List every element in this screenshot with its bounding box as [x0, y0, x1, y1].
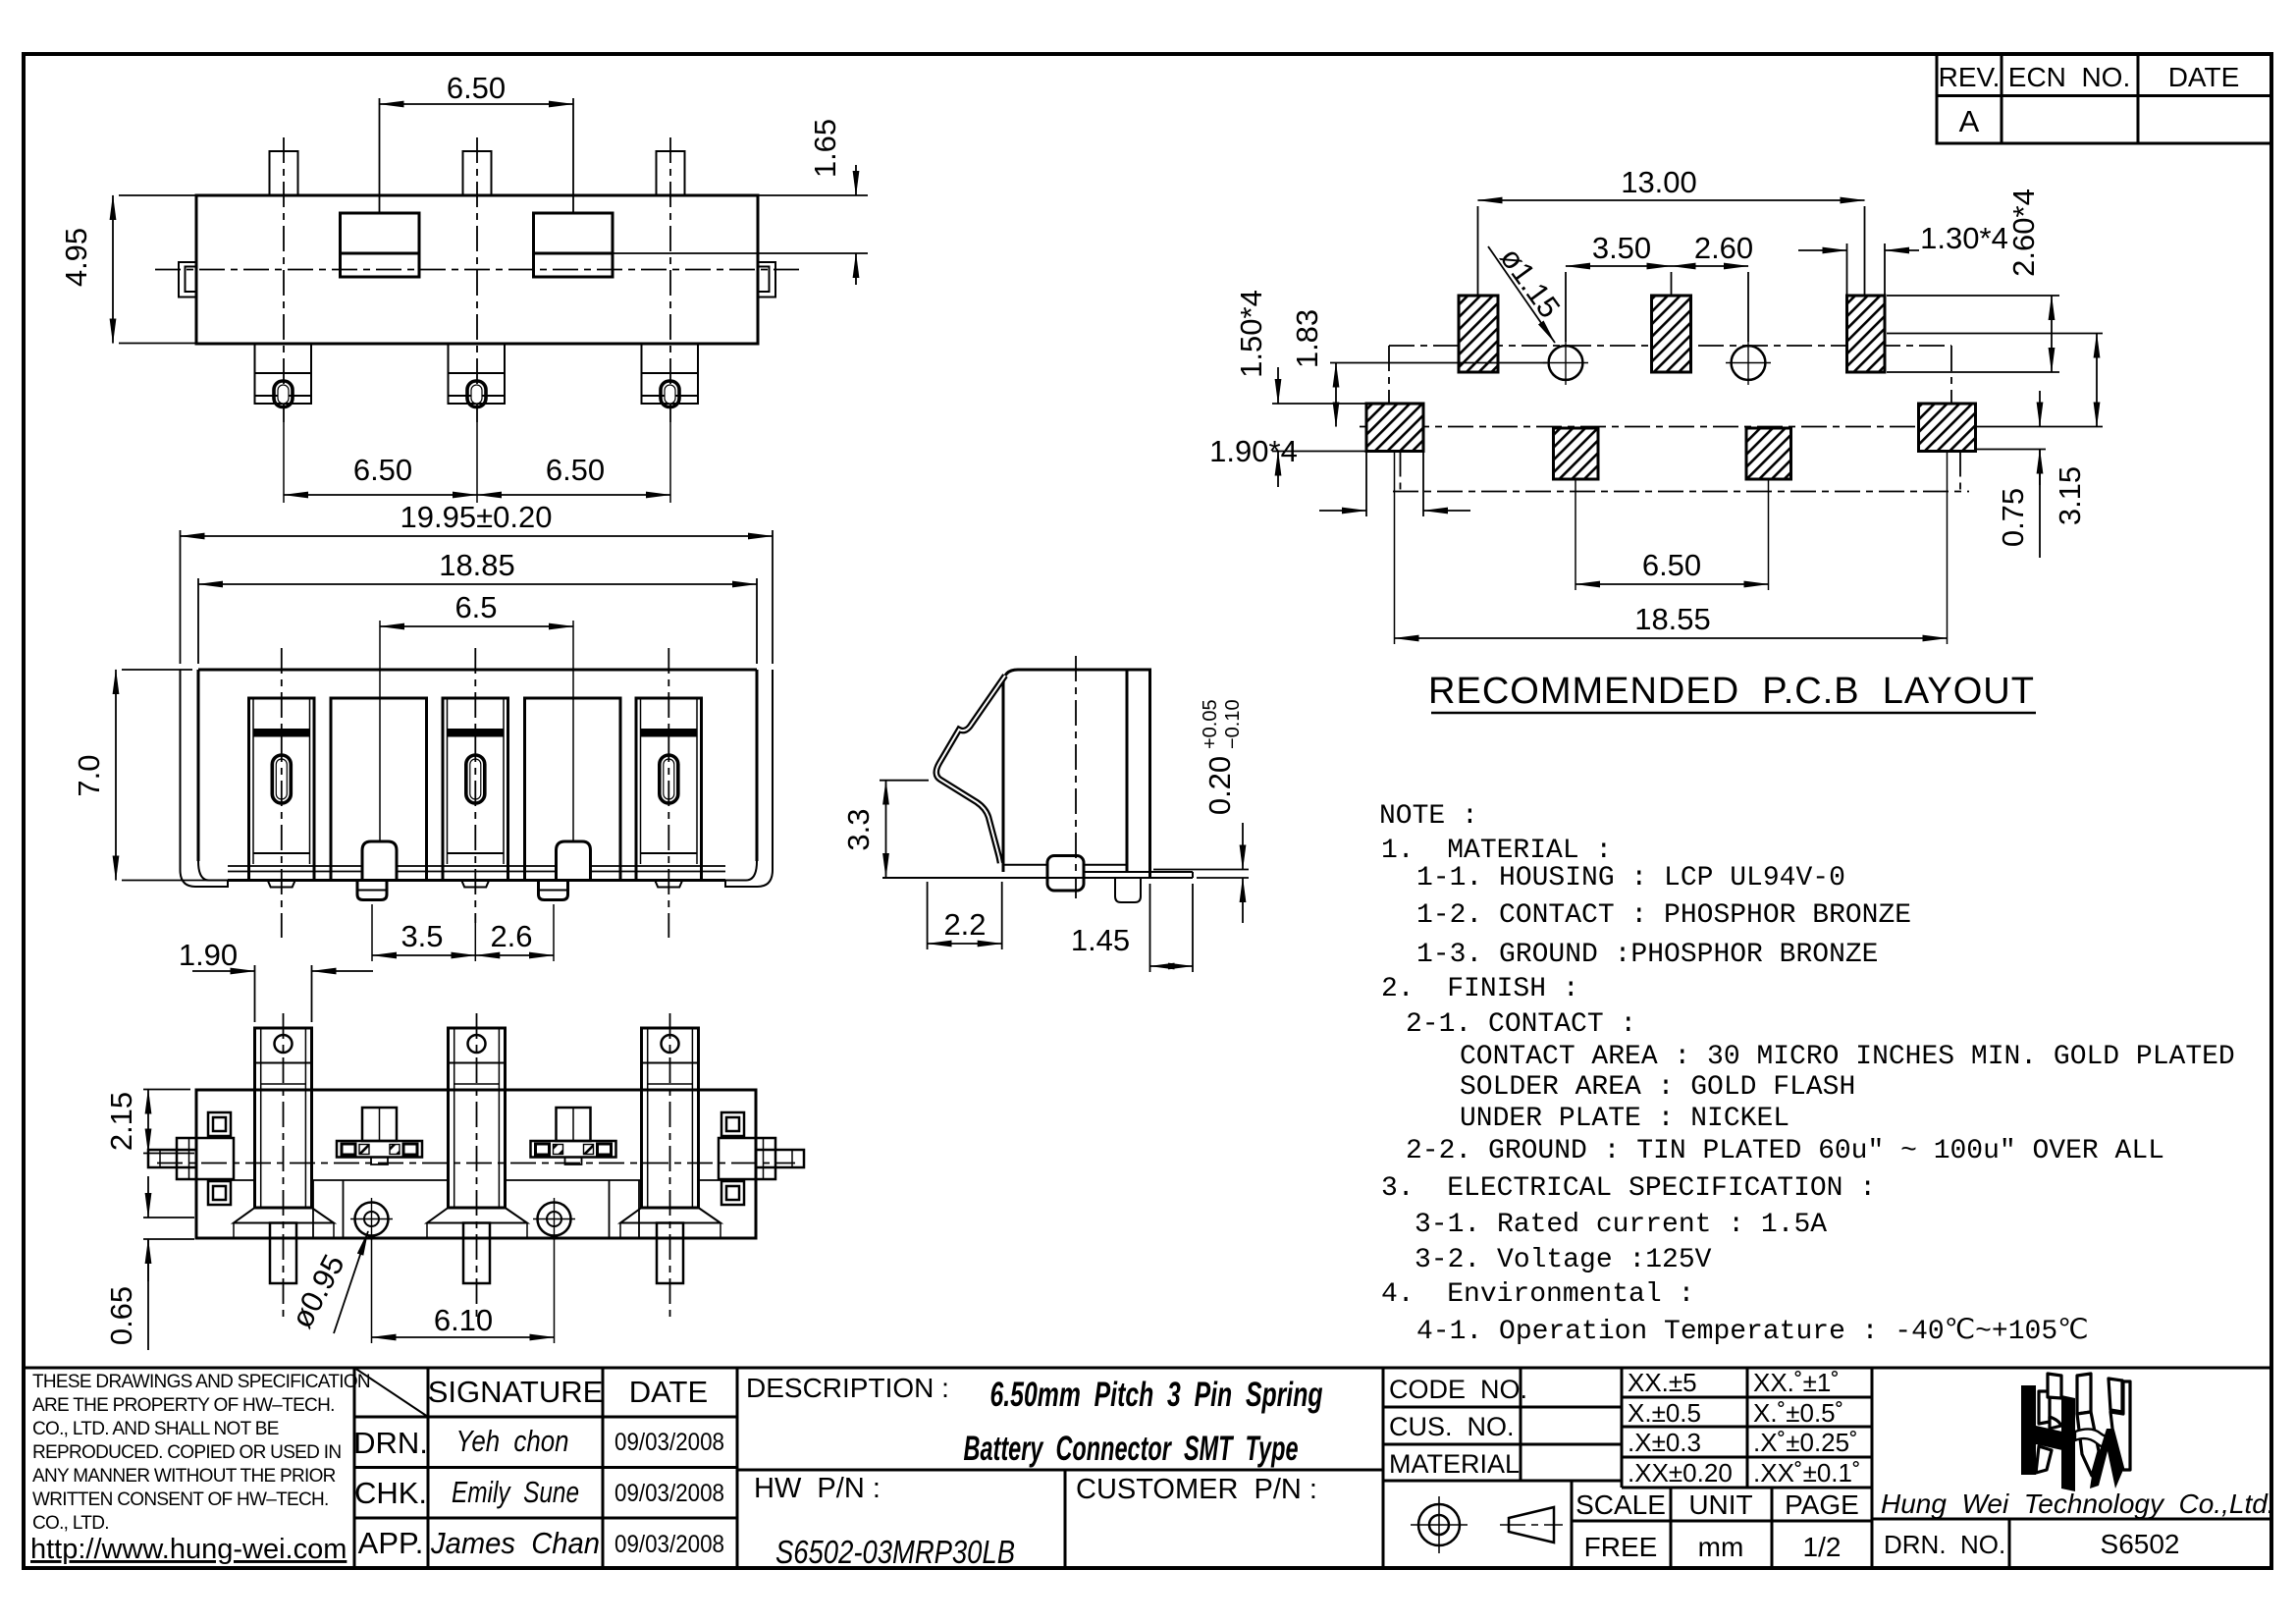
front view: contact cell 1: [249, 698, 315, 888]
svg-text:UNDER PLATE : NICKEL: UNDER PLATE : NICKEL: [1460, 1104, 1789, 1134]
dim 1.50*4: arrows outside: [1277, 367, 1279, 404]
dim 6.50 bottom left: dimension line: [284, 494, 477, 496]
dim 3.3: dimension line: [885, 781, 887, 878]
front view: body top line: [198, 669, 757, 672]
label Ø1.15: leader: [1488, 246, 1555, 343]
dim 2.15: extension lines: [143, 1089, 190, 1091]
svg-text:Yeh chon: Yeh chon: [456, 1424, 569, 1458]
svg-text:3.50: 3.50: [1592, 231, 1651, 265]
projection symbol cone: [1500, 1507, 1563, 1543]
pcb layout: pad T1: [1459, 296, 1498, 372]
bottom view: step notch verticals: [313, 1180, 639, 1238]
logo H right stem outline upper: [2039, 1391, 2050, 1424]
svg-text:2. FINISH :: 2. FINISH :: [1381, 974, 1579, 1004]
svg-text:19.95±0.20: 19.95±0.20: [400, 500, 553, 534]
svg-text:2.60: 2.60: [1694, 231, 1753, 265]
svg-text:Emily Sune: Emily Sune: [452, 1475, 579, 1509]
dim 0.20 +0.05 -0.10: text: [1200, 699, 1244, 815]
svg-text:1.90*4: 1.90*4: [1209, 434, 1298, 468]
projection symbol circle: [1411, 1496, 1468, 1553]
dim 18.55: extension lines: [1394, 452, 1396, 645]
svg-text:1.45: 1.45: [1071, 923, 1130, 957]
svg-text:4. Environmental :: 4. Environmental :: [1381, 1279, 1694, 1310]
svg-text:4.95: 4.95: [59, 228, 93, 287]
top view: bottom lug pin 1: [255, 344, 312, 407]
svg-text:1-1. HOUSING : LCP UL94V-0: 1-1. HOUSING : LCP UL94V-0: [1416, 863, 1845, 893]
top view: right side ground tab: [758, 262, 775, 298]
svg-text:APP.: APP.: [358, 1526, 424, 1560]
svg-text:1-3. GROUND :PHOSPHOR BRONZE: 1-3. GROUND :PHOSPHOR BRONZE: [1416, 940, 1878, 970]
front view: contact cell 5: [636, 698, 702, 888]
pcb layout: pad B1: [1366, 404, 1423, 452]
top view: bottom lug pin 3: [642, 344, 699, 407]
side view: housing inner wall: [1126, 670, 1129, 872]
svg-text:HW P/N :: HW P/N :: [754, 1473, 881, 1504]
logo top small bar outline: [2048, 1374, 2061, 1398]
dim 13.00: dimension line: [1478, 199, 1865, 201]
svg-text:0.65: 0.65: [104, 1286, 138, 1345]
pcb layout: bottom center line: [1393, 491, 1969, 493]
svg-text:09/03/2008: 09/03/2008: [614, 1480, 724, 1507]
svg-text:2.15: 2.15: [104, 1092, 138, 1151]
dim 1.45: dimension line: [1150, 965, 1194, 967]
svg-text:6.5: 6.5: [454, 590, 497, 624]
dim 3.50: extension lines: [1565, 272, 1567, 342]
side view: smt lead top line: [1084, 871, 1193, 873]
dim 3.15: extension line bottom: [1976, 426, 2103, 428]
svg-text:WRITTEN CONSENT OF HW–TECH.: WRITTEN CONSENT OF HW–TECH.: [32, 1489, 329, 1510]
svg-text:.XX˚±0.1˚: .XX˚±0.1˚: [1753, 1458, 1861, 1488]
front view: contact cell 3: [443, 698, 508, 888]
front view: right ground wing hook inner: [725, 861, 757, 881]
bottom view: ground contact T 2: [531, 1108, 616, 1164]
pcb layout: hole circle 1: [1543, 341, 1588, 385]
svg-text:2-2. GROUND : TIN PLATED 60u″: 2-2. GROUND : TIN PLATED 60u″ ~ 100u″ OV…: [1406, 1136, 2164, 1166]
dim 6.50 top: extension lines: [379, 98, 381, 213]
front view: body left wall: [197, 670, 200, 861]
svg-text:1.65: 1.65: [808, 119, 842, 178]
company cell divider: [1872, 1519, 2271, 1568]
tolerance table lines: [1622, 1368, 1872, 1488]
svg-text:2-1. CONTACT :: 2-1. CONTACT :: [1406, 1009, 1636, 1040]
svg-text:ECN NO.: ECN NO.: [2008, 62, 2130, 92]
svg-text:3.5: 3.5: [400, 919, 443, 953]
bottom view: tower center lines: [283, 1013, 285, 1321]
bottom view: inner bottom step line: [228, 1179, 724, 1181]
dim 6.50 top: dimension line: [380, 103, 574, 105]
svg-text:CUSTOMER P/N :: CUSTOMER P/N :: [1076, 1474, 1317, 1505]
svg-text:S6502-03MRP30LB: S6502-03MRP30LB: [775, 1534, 1015, 1570]
dim 6.5: extension lines through cells: [379, 621, 381, 841]
dim 2.60: extension line: [1747, 272, 1749, 342]
bottom view: mount hole circle 2: [533, 1198, 575, 1240]
dim 7.0: extension lines: [122, 669, 192, 671]
svg-text:SCALE: SCALE: [1575, 1489, 1666, 1520]
side view: center line: [1075, 656, 1077, 898]
dim 19.95±0.20: extension lines: [180, 530, 182, 664]
dim 1.50*4: extension lines: [1272, 403, 1366, 405]
front view: cell2 ground upper tab: [362, 841, 397, 881]
svg-text:REV.: REV.: [1939, 62, 2001, 92]
svg-text:0.75: 0.75: [1996, 488, 2030, 547]
logo H right stem outline lower: [2036, 1446, 2052, 1473]
dim 18.85: dimension line: [198, 583, 757, 585]
top view: contact window 1: [341, 213, 420, 277]
svg-text:CO., LTD.: CO., LTD.: [32, 1513, 109, 1534]
pcb layout: center line stub under pad B4: [1959, 452, 1961, 492]
dim 2.60*4: dimension line: [2051, 296, 2053, 372]
svg-text:4-1. Operation Temperature : -: 4-1. Operation Temperature : -40℃~+105℃: [1416, 1317, 2089, 1347]
svg-text:CHK.: CHK.: [354, 1476, 427, 1510]
svg-text:13.00: 13.00: [1621, 165, 1697, 199]
company logo HW: [2021, 1374, 2130, 1491]
dim 2.6: extension line right: [553, 904, 555, 961]
bottom view: tower 2: [427, 1028, 527, 1283]
pcb layout: pad B4: [1919, 404, 1976, 452]
revision table frame: [1937, 54, 2271, 143]
dim 13.00: extension lines: [1477, 206, 1479, 296]
svg-text:1.83: 1.83: [1290, 309, 1324, 368]
svg-text:3.3: 3.3: [841, 808, 876, 850]
side view: smt lead end: [1192, 872, 1194, 878]
dim 3.50: dimension line: [1566, 265, 1672, 267]
svg-text:DESCRIPTION :: DESCRIPTION :: [746, 1373, 949, 1403]
side view: bottom tab: [1115, 878, 1141, 902]
svg-text:3-2. Voltage :125V: 3-2. Voltage :125V: [1415, 1245, 1712, 1275]
front view: contact center lines: [281, 648, 283, 938]
svg-text:6.50: 6.50: [447, 71, 506, 105]
dim 0.65: arrow and line: [147, 1239, 149, 1281]
front view: left ground wing hook outer: [181, 670, 229, 887]
pcb layout: pad B2 extension: [1575, 479, 1576, 590]
svg-text:3. ELECTRICAL SPECIFICATION :: 3. ELECTRICAL SPECIFICATION :: [1381, 1173, 1876, 1204]
svg-text:XX.˚±1˚: XX.˚±1˚: [1753, 1368, 1840, 1397]
top view: housing body outline: [196, 195, 758, 344]
front view: middle cell 2: [331, 698, 427, 881]
svg-text:NOTE :: NOTE :: [1379, 801, 1478, 832]
title block top line: [24, 1367, 2271, 1370]
svg-text:X.±0.5: X.±0.5: [1628, 1398, 1701, 1428]
front view: body right wall: [756, 670, 759, 861]
dim 1.90*4: arrows outside: [1319, 510, 1366, 512]
bottom view: body outline: [196, 1090, 756, 1238]
svg-text:3-1. Rated current : 1.5A: 3-1. Rated current : 1.5A: [1415, 1210, 1827, 1240]
dim 1.90*4: extension lines: [1365, 452, 1367, 517]
svg-text:1-2. CONTACT : PHOSPHOR BRONZE: 1-2. CONTACT : PHOSPHOR BRONZE: [1416, 900, 1911, 931]
chained arrow to step line: [147, 1176, 149, 1218]
dim 0.75: arrows outside: [2039, 391, 2041, 427]
front view: ground strip lines: [228, 865, 725, 867]
dim 2.60*4: extension lines: [1887, 295, 2059, 297]
front view: left ground wing hook inner: [198, 861, 228, 881]
svg-text:REPRODUCED. COPIED OR USED IN: REPRODUCED. COPIED OR USED IN: [32, 1442, 341, 1463]
code no table lines: [1383, 1368, 1622, 1481]
dim 6.50 bottom right: dimension line: [477, 494, 670, 496]
logo W right top bar outline: [2109, 1379, 2122, 1412]
dim 6.10: extension lines: [371, 1239, 373, 1343]
logo H crossbar solid: [2036, 1426, 2062, 1450]
svg-text:FREE: FREE: [1584, 1532, 1658, 1562]
pcb layout: pad T2: [1652, 296, 1691, 372]
svg-text:CUS. NO.: CUS. NO.: [1389, 1412, 1515, 1441]
svg-text:7.0: 7.0: [72, 754, 106, 796]
svg-text:ARE THE PROPERTY OF HW–TECH.: ARE THE PROPERTY OF HW–TECH.: [32, 1395, 335, 1416]
pcb layout: pad B2: [1554, 428, 1599, 479]
logo W first top bar outline: [2077, 1374, 2091, 1414]
side view: housing outline: [1003, 670, 1150, 878]
legal text block: [32, 1372, 370, 1534]
svg-text:XX.±5: XX.±5: [1628, 1368, 1697, 1397]
dim 1.65: extension lines: [758, 194, 868, 196]
bottom view: mount hole circle 1: [350, 1198, 393, 1240]
svg-text:.X˚±0.25˚: .X˚±0.25˚: [1753, 1428, 1858, 1457]
svg-text:http://www.hung-wei.com: http://www.hung-wei.com: [30, 1534, 347, 1565]
svg-text:DRN.: DRN.: [353, 1426, 428, 1460]
svg-text:DATE: DATE: [629, 1375, 708, 1409]
title block main verticals: [354, 1368, 1872, 1568]
logo W middle V solid: [2090, 1429, 2123, 1489]
pcb layout: upper center line with jogs: [1389, 346, 1951, 427]
bottom view: ground contact T 1: [337, 1108, 422, 1164]
logo W left arm outline: [2077, 1412, 2099, 1476]
svg-text:James Chan: James Chan: [430, 1526, 600, 1560]
logo H left stem solid: [2021, 1385, 2036, 1475]
label Ø0.95 leader: [334, 1231, 368, 1333]
svg-text:6.50: 6.50: [1642, 548, 1701, 582]
svg-text:THESE DRAWINGS AND SPECIFICATI: THESE DRAWINGS AND SPECIFICATION: [32, 1372, 370, 1392]
dim 2.15: dimension line: [147, 1090, 149, 1154]
signature table row lines: [354, 1417, 737, 1518]
dim 18.85: extension lines: [197, 578, 199, 664]
svg-text:+0.05: +0.05: [1200, 699, 1221, 749]
top view: lug center line extensions to dim: [283, 422, 285, 503]
dim 0.75: leader down: [2039, 450, 2041, 559]
front view: cell4 ground upper tab: [557, 841, 591, 881]
dim 0.75: extension line: [1976, 449, 2046, 451]
svg-text:X.˚±0.5˚: X.˚±0.5˚: [1753, 1398, 1843, 1428]
svg-text:6.50: 6.50: [353, 453, 412, 487]
svg-text:2.6: 2.6: [490, 919, 532, 953]
svg-text:UNIT: UNIT: [1688, 1489, 1752, 1520]
svg-text:Battery Connector SMT Type: Battery Connector SMT Type: [964, 1430, 1299, 1468]
svg-text:PAGE: PAGE: [1785, 1489, 1859, 1520]
top view: pin 2 vertical center line: [476, 137, 478, 422]
svg-text:CO., LTD. AND SHALL NOT BE: CO., LTD. AND SHALL NOT BE: [32, 1419, 279, 1439]
dim 2.6: dimension line: [475, 954, 554, 956]
svg-text:Hung Wei Technology Co.,Ltd: Hung Wei Technology Co.,Ltd.: [1881, 1489, 2275, 1519]
dim 1.30*4: extension lines: [1846, 244, 1848, 296]
dim 18.55: dimension line: [1395, 637, 1948, 639]
svg-text:18.85: 18.85: [439, 548, 515, 582]
dim 6.50 pcb: dimension line: [1575, 583, 1769, 585]
top view: pin 1 vertical center line: [283, 137, 285, 422]
dim 1.45: extension lines: [1149, 884, 1151, 972]
dim 1.90: arrows outside: [192, 970, 255, 972]
pcb layout: hole circle 2: [1726, 341, 1771, 385]
side view: solder foot: [1047, 856, 1084, 892]
bottom view: tower 3: [620, 1028, 721, 1283]
side view: spring contact outer: [936, 676, 1005, 863]
front view: middle cell 4: [525, 698, 621, 881]
bottom view: tower 1 (spring contact): [234, 1028, 334, 1283]
dim 6.10: dimension line: [372, 1336, 555, 1338]
dim 3.5: extension line left: [371, 904, 373, 961]
dim 3.3: extension line top: [880, 780, 929, 782]
top view: bottom lug pin 2: [449, 344, 506, 407]
dim 7.0: dimension line: [115, 670, 117, 881]
svg-text:1.30*4: 1.30*4: [1920, 221, 2008, 255]
svg-text:SOLDER AREA : GOLD FLASH: SOLDER AREA : GOLD FLASH: [1460, 1072, 1855, 1103]
dim 0.20: extension lines: [1153, 869, 1249, 871]
svg-text:1. MATERIAL :: 1. MATERIAL :: [1381, 836, 1612, 866]
svg-text:SIGNATURE: SIGNATURE: [428, 1375, 604, 1409]
pcb layout title underline: [1431, 712, 2036, 715]
bottom view: right side lug: [719, 1112, 804, 1205]
front view: cell4 ground lower foot: [539, 881, 568, 900]
svg-text:.XX±0.20: .XX±0.20: [1628, 1458, 1733, 1488]
front view: cell2 ground lower foot: [357, 881, 387, 900]
dim 3.15: dimension line: [2096, 334, 2098, 427]
svg-text:1.90: 1.90: [179, 938, 238, 972]
dim 1.83: dimension line: [1335, 363, 1337, 427]
svg-text:mm: mm: [1698, 1532, 1744, 1562]
logo W inner bevel: [2075, 1429, 2113, 1447]
logo middle bar solid: [2061, 1395, 2075, 1491]
top view: horizontal center line: [155, 269, 799, 271]
dim 1.90: extension lines: [254, 965, 256, 1022]
side view: seating plane line: [882, 877, 1193, 879]
dim 2.2: dimension line: [928, 943, 1002, 945]
top view: pin 2 top stub: [463, 151, 492, 195]
dim 1.65: arrows: [855, 165, 857, 195]
svg-text:3.15: 3.15: [2053, 466, 2087, 525]
pcb layout: center line stub under pad B1: [1400, 452, 1402, 492]
svg-text:S6502: S6502: [2101, 1529, 2180, 1559]
svg-text:ANY MANNER WITHOUT THE PRIOR: ANY MANNER WITHOUT THE PRIOR: [32, 1466, 336, 1487]
pcb layout: pad B3 extension: [1768, 479, 1770, 590]
svg-text:CODE NO.: CODE NO.: [1389, 1375, 1527, 1404]
svg-text:MATERIAL: MATERIAL: [1389, 1449, 1520, 1479]
dim 4.95: dimension line: [112, 195, 114, 344]
pcb layout: pad B3: [1746, 428, 1791, 479]
side view: spring contact inner white split: [936, 676, 1005, 863]
svg-text:6.50mm Pitch 3 Pin Spring: 6.50mm Pitch 3 Pin Spring: [990, 1376, 1323, 1414]
signature table diagonal: [354, 1368, 428, 1417]
svg-text:DRN. NO.: DRN. NO.: [1884, 1530, 2005, 1559]
svg-text:18.55: 18.55: [1634, 602, 1711, 636]
svg-text:09/03/2008: 09/03/2008: [614, 1531, 724, 1558]
dim 0.20: arrows: [1242, 823, 1244, 870]
svg-text:CONTACT AREA : 30 MICRO INCHES: CONTACT AREA : 30 MICRO INCHES MIN. GOLD…: [1460, 1042, 2235, 1072]
top view: pin 3 top stub: [657, 151, 685, 195]
svg-text:6.50: 6.50: [546, 453, 605, 487]
svg-text:DATE: DATE: [2168, 62, 2240, 92]
dim 1.30*4: arrows outside: [1798, 249, 1847, 251]
svg-text:1/2: 1/2: [1803, 1532, 1842, 1562]
svg-text:2.2: 2.2: [943, 907, 986, 942]
top view: contact window 2: [534, 213, 614, 277]
bottom view: horizontal center line: [157, 1163, 795, 1164]
scale unit page table lines: [1572, 1481, 1872, 1568]
dim 3.5/2.6: center extension: [474, 923, 476, 961]
svg-text:RECOMMENDED P.C.B LAYOUT: RECOMMENDED P.C.B LAYOUT: [1428, 671, 2035, 712]
logo W right arm outline: [2110, 1381, 2130, 1470]
top view: pin 3 vertical center line: [669, 137, 671, 422]
description cell divider: [737, 1470, 1383, 1568]
top view: pin 1 top stub: [270, 151, 298, 195]
dim 3.5: dimension line: [372, 954, 475, 956]
side view: housing bottom edges: [1003, 864, 1127, 866]
top view: left side ground tab: [179, 262, 196, 298]
dim 4.95: extension lines: [119, 194, 196, 196]
pcb layout: pad T3: [1847, 296, 1886, 372]
dim 2.2: extension lines: [927, 882, 929, 949]
dim 19.95±0.20: dimension line: [181, 535, 774, 537]
dim 2.60: dimension line: [1672, 265, 1749, 267]
svg-text:1.50*4: 1.50*4: [1234, 290, 1268, 378]
front view: right ground wing hook outer: [725, 670, 773, 887]
dim 1.83: extension line: [1330, 362, 1547, 364]
svg-text:2.60*4: 2.60*4: [2006, 189, 2041, 277]
svg-text:A: A: [1959, 104, 1980, 138]
logo H bevel wedge: [2050, 1417, 2061, 1429]
dim 3.15: extension line top: [1887, 333, 2103, 335]
svg-text:−0.10: −0.10: [1222, 699, 1244, 749]
svg-text:.X±0.3: .X±0.3: [1628, 1428, 1701, 1457]
dim 6.5: dimension line: [380, 625, 573, 627]
svg-text:6.10: 6.10: [434, 1303, 493, 1337]
bottom view: left side lug: [148, 1112, 234, 1205]
svg-text:09/03/2008: 09/03/2008: [614, 1429, 724, 1456]
pcb layout: lower center line: [1360, 426, 1976, 428]
front view: body bottom line segments: [228, 879, 725, 882]
svg-text:0.20: 0.20: [1202, 756, 1237, 815]
